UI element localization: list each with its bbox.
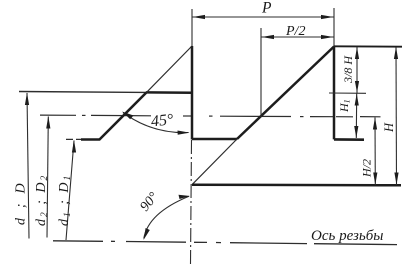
- wire: d;D level short line across right tooth: [329, 92, 366, 94]
- wire: pitch line (dash-dot) left of 45 label: [40, 114, 76, 116]
- dimension H1: [355, 94, 357, 139]
- wire: pitch line (dash-dot) right of 45 label: [183, 115, 193, 117]
- wire: right steep flank at x=334: [333, 46, 336, 139]
- wire: middle root flat: [192, 138, 237, 141]
- wire: crest level line right (theoretical apex level): [334, 45, 402, 47]
- dimension 3/8H: [356, 47, 358, 93]
- wire: extension line x=261 for P/2: [260, 28, 262, 117]
- wire: middle flank thin extension to base corner: [192, 139, 237, 185]
- wire: d1;D1 dashed extension to left root flat: [66, 138, 81, 140]
- wire: pitch line solid segment for H/2 arrow: [360, 116, 381, 118]
- wire: left 45deg flank (thick part): [99, 92, 147, 140]
- wire: right root flat: [334, 138, 364, 141]
- dimension d2;D2 vertical line: [47, 117, 48, 238]
- dimension H: [395, 47, 398, 185]
- axis of thread (dash-dot): [53, 240, 103, 243]
- wire: theoretical base line: [192, 183, 401, 186]
- wire: d;D diameter level line: [19, 91, 146, 94]
- wire: steep flank at x=192: [191, 46, 194, 140]
- wire: crest flat of left tooth at d;D level: [146, 91, 193, 94]
- svg-text:P/2: P/2: [285, 24, 305, 39]
- wire: middle 45deg flank thick: [237, 47, 334, 140]
- svg-text:H/2: H/2: [360, 159, 374, 178]
- svg-text:d2 ; D2: d2 ; D2: [34, 174, 50, 226]
- wire: left root flat: [81, 138, 100, 141]
- svg-text:d1 ; D1: d1 ; D1: [57, 174, 73, 226]
- dimension H/2: [374, 118, 376, 186]
- svg-text:45°: 45°: [150, 111, 175, 130]
- dimension P: [192, 16, 334, 18]
- svg-text:Ось резьбы: Ось резьбы: [311, 228, 383, 244]
- wire: extension line x=192 above profile: [191, 9, 193, 46]
- dimension d;D vertical line: [27, 93, 29, 239]
- wire: center line x=192 below profile (dash-dot): [191, 140, 192, 264]
- svg-text:H: H: [382, 122, 396, 133]
- dimension d1;D1 vertical line: [66, 141, 74, 241]
- dimension P/2: [261, 36, 334, 38]
- svg-text:d ; D: d ; D: [14, 180, 29, 225]
- wire: left flank thin extension to apex: [147, 46, 193, 92]
- angle 45deg arc: [123, 113, 189, 133]
- svg-text:3/8 H: 3/8 H: [341, 55, 355, 84]
- svg-text:P: P: [261, 0, 272, 17]
- wire: extension line x=334 above profile: [333, 8, 335, 46]
- angle 90deg arc: [144, 196, 189, 238]
